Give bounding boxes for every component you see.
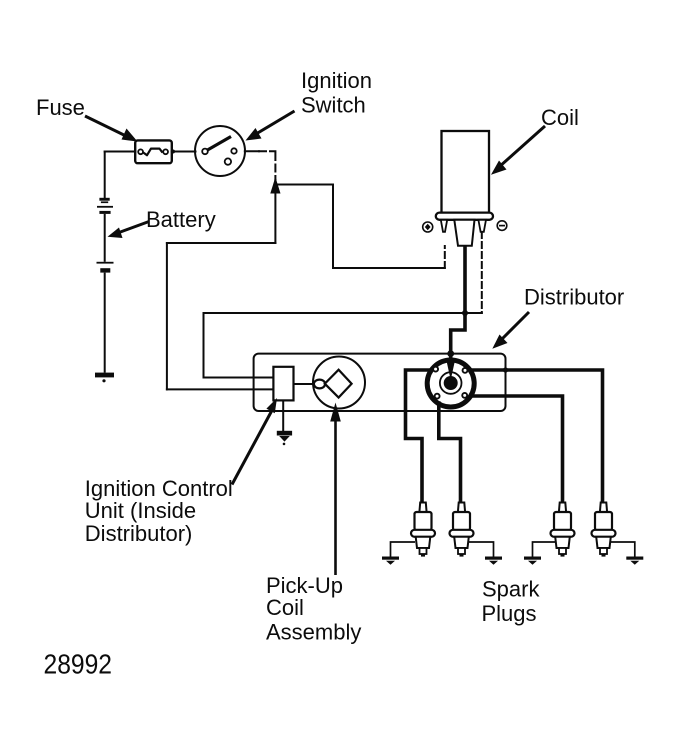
svg-text:Ignition: Ignition bbox=[301, 68, 372, 93]
wire battery internal 2 bbox=[104, 273, 106, 373]
spark plug 1 bbox=[411, 503, 435, 557]
ground plug2 bbox=[485, 557, 502, 565]
label arrows bbox=[85, 111, 545, 575]
coil plus terminal mark bbox=[423, 222, 433, 232]
wire vertical dashed at x275 bbox=[274, 153, 276, 180]
coil minus terminal mark bbox=[497, 221, 507, 231]
ground plug4 bbox=[626, 557, 643, 565]
wire cap to spark plug 3 bbox=[472, 396, 563, 503]
wire down x167 bbox=[166, 243, 168, 389]
battery bbox=[95, 198, 114, 383]
wire down x203.5 bbox=[203, 313, 205, 378]
ground plug3 bbox=[524, 557, 541, 565]
svg-text:Spark: Spark bbox=[482, 577, 540, 602]
wire coil secondary to cap bbox=[451, 245, 465, 361]
wire right into ICU y389 bbox=[167, 388, 274, 390]
junction housing top / coil wire bbox=[447, 350, 454, 357]
wire ICU to pickup oval bbox=[294, 383, 314, 385]
spark plug 3 bbox=[551, 503, 575, 557]
wire switch-right solid bbox=[245, 150, 259, 152]
wire plug2 ground bbox=[469, 542, 494, 557]
arrow Fuse label bbox=[85, 116, 127, 137]
svg-text:Assembly: Assembly bbox=[266, 620, 361, 645]
ignition control unit bbox=[273, 367, 293, 401]
spark plug 2 bbox=[450, 503, 474, 557]
junction housing right / plug4 wire bbox=[503, 367, 508, 372]
ground ICU bbox=[277, 431, 292, 445]
distributor cap bbox=[427, 360, 474, 407]
svg-text:Distributor: Distributor bbox=[524, 285, 624, 310]
svg-text:Coil: Coil bbox=[266, 595, 304, 620]
wire switch-right dashed bbox=[259, 150, 275, 152]
fuse bbox=[135, 140, 172, 163]
wire down x333 bbox=[332, 185, 334, 269]
svg-text:Distributor): Distributor) bbox=[85, 521, 193, 546]
thick ignition wires bbox=[406, 245, 603, 503]
wire cap to spark plug 2 bbox=[439, 403, 461, 503]
svg-text:Plugs: Plugs bbox=[482, 601, 537, 626]
wire fuse-right to switch bbox=[172, 151, 196, 153]
coil bbox=[436, 131, 493, 246]
pick-up coil assembly bbox=[313, 357, 365, 409]
arrow Distributor label bbox=[500, 312, 529, 341]
wire fuse-left horizontal bbox=[105, 151, 136, 153]
svg-text:Fuse: Fuse bbox=[36, 95, 85, 120]
wire battery internal 1 bbox=[104, 214, 106, 262]
wire left y243 bbox=[167, 242, 276, 244]
svg-text:28992: 28992 bbox=[44, 649, 113, 680]
svg-text:Coil: Coil bbox=[541, 105, 579, 130]
svg-text:Switch: Switch bbox=[301, 92, 366, 117]
wire branch to coil plus bbox=[275, 184, 333, 186]
junction arrow up on node B+ bbox=[270, 177, 280, 194]
svg-text:Battery: Battery bbox=[146, 207, 216, 232]
wire battery top feed bbox=[104, 152, 106, 198]
wire dashed up to coil + pin bbox=[444, 246, 446, 268]
junction coil-minus crossing bbox=[462, 310, 468, 316]
arrow Coil label bbox=[499, 126, 545, 167]
wire plug4 ground bbox=[611, 542, 635, 557]
wire plug3 ground bbox=[533, 542, 556, 557]
distributor housing bbox=[254, 354, 506, 411]
spark plug 4 bbox=[592, 503, 616, 557]
wire cap to spark plug 1 bbox=[406, 370, 430, 503]
arrow Battery label bbox=[119, 222, 149, 233]
wire plug1 ground bbox=[391, 542, 416, 557]
wire right into ICU y377.5 bbox=[204, 377, 274, 379]
svg-text:Unit (Inside: Unit (Inside bbox=[85, 498, 196, 523]
wire right y268 bbox=[333, 267, 445, 269]
wire ICU ground lead bbox=[282, 400, 284, 431]
wire cap to spark plug 4 bbox=[472, 370, 603, 503]
ground plug1 bbox=[382, 557, 399, 565]
junction fuse right bbox=[171, 150, 175, 154]
arrow Ignition Switch label bbox=[256, 111, 295, 134]
wire coil minus left y313 bbox=[204, 312, 482, 314]
arrow Pick-Up Coil label bbox=[334, 420, 337, 575]
wire coil minus dashed down bbox=[481, 232, 483, 313]
ignition switch bbox=[195, 126, 245, 176]
arrow Ignition Control Unit label bbox=[232, 408, 274, 485]
